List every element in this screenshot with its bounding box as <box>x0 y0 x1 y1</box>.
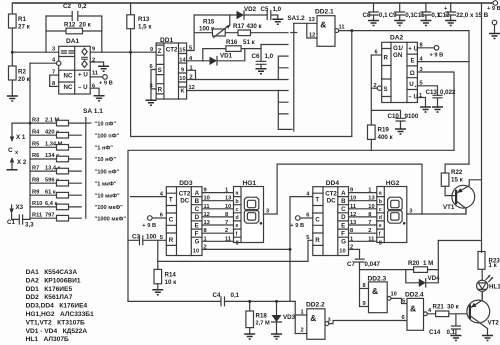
svg-text:10: 10 <box>339 249 345 255</box>
svg-text:8: 8 <box>225 212 228 218</box>
wire: DA2 out long line with left riser to C3/C4 <box>128 150 454 301</box>
ground at DA2 pin 1 <box>420 107 431 112</box>
svg-text:DD3: DD3 <box>179 180 193 187</box>
ground at C13 <box>432 107 443 112</box>
svg-text:DD4: DD4 <box>326 180 340 187</box>
wire: HG2.3 row to VT1 collector <box>422 209 466 214</box>
svg-text:R5: R5 <box>32 142 39 148</box>
svg-text:R11: R11 <box>32 212 42 218</box>
svg-text:R10: R10 <box>32 201 42 207</box>
svg-text:1 М: 1 М <box>423 260 433 267</box>
ground at VD3 <box>271 334 282 339</box>
wire: C7 bottom to R20 row <box>360 269 406 271</box>
svg-text:7: 7 <box>368 220 371 226</box>
svg-text:+ 9 B: + 9 B <box>99 81 113 87</box>
svg-text:0,1: 0,1 <box>231 292 240 299</box>
terminal +9V at DA1 pin 11 <box>103 75 108 80</box>
wire: R2 to ground <box>11 80 13 96</box>
resistor R14 <box>157 240 159 269</box>
svg-text:b: b <box>379 199 382 205</box>
svg-text:g: g <box>379 239 382 245</box>
svg-text:13: 13 <box>225 196 231 202</box>
svg-text:&: & <box>410 304 416 314</box>
svg-text:1: 1 <box>204 236 207 242</box>
svg-text:R: R <box>169 237 174 244</box>
svg-text:HG1,HG2 АЛС333Б1: HG1,HG2 АЛС333Б1 <box>26 311 94 318</box>
DA1 comparator input marks <box>62 51 75 53</box>
svg-text:11: 11 <box>368 236 374 242</box>
svg-text:S: S <box>384 86 388 93</box>
svg-text:9: 9 <box>150 47 153 53</box>
svg-text:10: 10 <box>350 196 356 202</box>
capacitor C10 <box>371 110 405 129</box>
svg-text:R4: R4 <box>32 129 40 135</box>
resistor R19 <box>368 125 376 139</box>
svg-text:51 к: 51 к <box>243 39 256 46</box>
svg-text:13: 13 <box>309 17 315 23</box>
svg-text:G: G <box>341 239 346 246</box>
wire: to X1 <box>12 123 30 133</box>
svg-text:"10 нФ": "10 нФ" <box>95 157 117 163</box>
svg-text:C10: C10 <box>388 113 400 120</box>
wire: R19 bottom to DA2 out line <box>370 139 372 150</box>
svg-text:DA1 К554СА3А: DA1 К554СА3А <box>26 269 78 276</box>
terminal X3 arrow <box>11 205 13 211</box>
svg-text:R21: R21 <box>433 304 445 311</box>
svg-text:DA2 КР1006ВИ1: DA2 КР1006ВИ1 <box>26 277 81 284</box>
svg-text:9: 9 <box>181 68 184 74</box>
svg-text:CT2: CT2 <box>179 191 191 198</box>
svg-text:DD1 К176ИЕ5: DD1 К176ИЕ5 <box>26 286 73 293</box>
svg-text:8: 8 <box>204 228 207 234</box>
svg-text:3: 3 <box>52 47 55 53</box>
svg-text:R15: R15 <box>203 19 215 26</box>
svg-text:D: D <box>195 214 200 221</box>
svg-text:8: 8 <box>350 228 353 234</box>
ground at C6 <box>256 69 267 74</box>
wire: DD4 T riser <box>290 197 313 302</box>
wire: anode rail from HG1.3 to HG2 riser <box>277 164 422 214</box>
svg-text:13: 13 <box>368 196 374 202</box>
svg-text:C2: C2 <box>63 3 71 10</box>
svg-text:11: 11 <box>204 204 210 210</box>
svg-text:+ 9 B: + 9 B <box>142 223 156 229</box>
svg-text:0,047: 0,047 <box>365 261 381 268</box>
svg-text:CT2: CT2 <box>166 47 178 54</box>
wire: DD3 pin2 output row to DD4 T riser <box>202 248 290 250</box>
svg-text:VT1,VT2 КТ3107Б: VT1,VT2 КТ3107Б <box>26 319 85 326</box>
wire: DD4 pin2 to C7 <box>349 249 360 251</box>
resistor R1 <box>9 14 17 28</box>
svg-text:E: E <box>411 58 415 65</box>
svg-text:R7: R7 <box>32 165 39 171</box>
svg-text:F: F <box>341 231 345 238</box>
DA1 comparator diamonds <box>82 48 87 67</box>
svg-text:7: 7 <box>225 220 228 226</box>
svg-text:E: E <box>341 222 345 229</box>
svg-text:e: e <box>236 223 239 229</box>
svg-text:DA2: DA2 <box>390 35 404 42</box>
terminal +9V top right circle <box>493 1 498 6</box>
svg-text:f: f <box>236 231 238 237</box>
svg-text:20 к: 20 к <box>18 76 31 83</box>
svg-text:d: d <box>236 215 239 221</box>
svg-text:5: 5 <box>402 299 405 305</box>
svg-text:Z: Z <box>158 48 162 55</box>
svg-text:61 к: 61 к <box>45 189 56 195</box>
ground at VT2 <box>482 336 493 341</box>
svg-text:R20: R20 <box>408 260 420 267</box>
svg-text:VD1: VD1 <box>220 53 233 60</box>
wire: Z node down to gate line <box>131 52 352 136</box>
ground at R18 <box>244 334 255 339</box>
ground below R2 <box>7 96 18 101</box>
wire: pins 7-8 tie bracket <box>49 75 51 86</box>
ground at C10 <box>395 129 406 134</box>
svg-text:R: R <box>384 55 389 62</box>
svg-text:c: c <box>379 207 382 213</box>
svg-text:X3: X3 <box>16 204 24 211</box>
svg-text:R9: R9 <box>32 189 39 195</box>
svg-text:C: C <box>341 206 346 213</box>
svg-text:CT2: CT2 <box>325 191 337 198</box>
svg-text:DD3,DD4 К176ИЕ4: DD3,DD4 К176ИЕ4 <box>26 303 88 310</box>
svg-text:15 к: 15 к <box>451 177 464 184</box>
svg-text:22,0 x 15 B: 22,0 x 15 B <box>456 12 489 19</box>
svg-text:9: 9 <box>92 47 95 53</box>
svg-text:10: 10 <box>391 292 397 298</box>
svg-text:a: a <box>379 191 382 197</box>
svg-text:C1: C1 <box>7 219 15 226</box>
svg-text:"1000 мкФ": "1000 мкФ" <box>95 216 127 222</box>
svg-text:9: 9 <box>204 188 207 194</box>
terminal +9V at DA2 pin 8 <box>434 46 439 51</box>
resistor R18 <box>249 301 251 311</box>
svg-text:VT2: VT2 <box>488 320 500 327</box>
wire: DD3 T input from gate-line riser <box>131 196 167 198</box>
svg-text:X 2: X 2 <box>17 159 27 166</box>
svg-text:10: 10 <box>193 249 199 255</box>
svg-text:&: & <box>320 20 326 30</box>
svg-text:GN: GN <box>393 52 403 59</box>
svg-text:DD2 К561ЛА7: DD2 К561ЛА7 <box>26 294 73 301</box>
svg-text:C: C <box>8 147 13 154</box>
wire: R1 bottom to node <box>11 28 13 52</box>
svg-text:G1/: G1/ <box>393 45 403 52</box>
svg-text:2: 2 <box>225 228 228 234</box>
svg-text:e: e <box>379 223 382 229</box>
resistor R13 <box>130 3 132 52</box>
svg-text:15: 15 <box>179 48 185 54</box>
terminal X2 arrow <box>10 157 14 163</box>
svg-text:R1: R1 <box>18 16 26 23</box>
svg-text:DD2.1: DD2.1 <box>315 9 334 16</box>
ground at DA1 pin 2 <box>98 66 109 71</box>
svg-text:11: 11 <box>339 25 345 31</box>
wire: ladder left riser X1..C1 <box>29 123 31 219</box>
svg-text:D: D <box>341 214 346 221</box>
svg-text:"100 нФ": "100 нФ" <box>95 169 120 175</box>
node: DD3.2 / riser junction <box>289 248 292 251</box>
svg-text:2: 2 <box>368 228 371 234</box>
svg-text:R8: R8 <box>32 177 39 183</box>
svg-text:&: & <box>372 286 378 296</box>
wire: C2/R12 right riser to pin 9 <box>101 16 103 52</box>
wire: DD2.1-out riser to R22 to VT1 base <box>445 164 469 196</box>
terminal X1 arrow <box>11 133 13 139</box>
svg-text:"1 мкФ": "1 мкФ" <box>95 181 117 187</box>
svg-text:VT1: VT1 <box>443 204 455 211</box>
svg-text:797: 797 <box>45 212 55 218</box>
svg-text:"10 пФ": "10 пФ" <box>95 121 117 127</box>
svg-text:R19: R19 <box>378 127 390 134</box>
ground at C5 <box>272 19 283 24</box>
svg-text:2: 2 <box>301 328 304 334</box>
svg-text:1: 1 <box>350 236 353 242</box>
svg-text:"100 пФ": "100 пФ" <box>95 133 120 139</box>
ground at DD1 pins 6,3 <box>146 100 157 105</box>
svg-text:100: 100 <box>146 234 157 241</box>
svg-text:R12: R12 <box>64 22 76 29</box>
svg-text:11: 11 <box>92 71 98 77</box>
svg-text:+ 9 B: + 9 B <box>487 6 500 12</box>
node: riser/R3/X1 junction <box>29 122 32 125</box>
svg-text:10: 10 <box>179 76 185 82</box>
svg-text:27 к: 27 к <box>18 24 31 31</box>
svg-text:R6: R6 <box>32 153 39 159</box>
svg-text:DA1: DA1 <box>66 38 80 45</box>
svg-text:6,4 к: 6,4 к <box>45 201 57 207</box>
ground at R14 <box>152 290 163 295</box>
svg-text:10: 10 <box>368 204 374 210</box>
svg-text:– U: – U <box>78 84 88 91</box>
capacitor C1 <box>12 214 30 224</box>
decimal point HG2 <box>403 222 406 225</box>
svg-text:1: 1 <box>225 188 228 194</box>
LED HL1 <box>477 280 488 291</box>
svg-text:DD2.2: DD2.2 <box>306 302 325 309</box>
svg-text:b: b <box>236 199 239 205</box>
svg-text:C: C <box>195 206 200 213</box>
svg-text:C: C <box>315 217 320 224</box>
wire: R16 jog to switch contact 2 <box>261 45 288 49</box>
svg-text:G: G <box>195 239 200 246</box>
svg-text:8: 8 <box>368 212 371 218</box>
resistor R23 <box>478 252 485 270</box>
ground at C14 <box>450 336 461 341</box>
svg-text:6: 6 <box>402 315 405 321</box>
svg-text:g: g <box>236 239 239 245</box>
svg-text:20 к: 20 к <box>79 22 92 29</box>
svg-text:d: d <box>379 215 382 221</box>
wire: C4 row <box>128 300 295 302</box>
svg-text:C: C <box>169 217 174 224</box>
svg-text:C6: C6 <box>252 53 260 60</box>
svg-text:30 к: 30 к <box>447 304 460 311</box>
svg-text:430 к: 430 к <box>247 23 263 30</box>
svg-text:R: R <box>158 87 163 94</box>
node: gate line tap <box>351 31 353 137</box>
svg-text:SA 1.1: SA 1.1 <box>83 108 103 115</box>
wire: +9V top rail <box>12 2 493 4</box>
svg-text:0,2: 0,2 <box>78 3 87 10</box>
svg-text:+ 9 B: + 9 B <box>290 223 304 229</box>
svg-text:R22: R22 <box>451 169 463 176</box>
svg-text:9100: 9100 <box>405 113 419 120</box>
svg-text:"100 мкФ": "100 мкФ" <box>95 205 124 211</box>
decimal point HG1 <box>260 222 263 225</box>
svg-text:NC: NC <box>64 73 73 80</box>
svg-text:SA1.2: SA1.2 <box>288 15 306 22</box>
resistor R2 <box>9 66 17 80</box>
svg-text:R18: R18 <box>256 313 268 320</box>
svg-text:A: A <box>341 190 346 197</box>
svg-text:R14: R14 <box>165 272 177 279</box>
svg-text:T: T <box>315 197 319 204</box>
svg-text:*: * <box>415 85 417 90</box>
svg-text:11: 11 <box>350 204 356 210</box>
wire: left rail down from top to R1 <box>11 3 13 14</box>
wire: common reset line DD3.R to DD4.R <box>158 240 313 261</box>
svg-text:2,7 М: 2,7 М <box>256 321 270 327</box>
wire: C2/R12 left riser <box>45 16 47 52</box>
svg-text:0,1: 0,1 <box>379 12 388 19</box>
svg-text:VD2: VD2 <box>244 6 257 13</box>
svg-text:"10 мкФ": "10 мкФ" <box>95 193 121 199</box>
svg-text:9: 9 <box>350 188 353 194</box>
svg-text:NC: NC <box>64 84 73 91</box>
svg-text:X 1: X 1 <box>16 134 26 141</box>
svg-text:F: F <box>195 231 199 238</box>
parts list <box>26 269 94 343</box>
svg-text:10 к: 10 к <box>165 279 178 286</box>
wire: DD2.2 out to DD2.4 pin 6 <box>329 321 407 324</box>
svg-text:1,0: 1,0 <box>273 6 282 13</box>
svg-text:400 к: 400 к <box>378 134 394 141</box>
svg-text:E: E <box>195 222 199 229</box>
svg-text:1: 1 <box>368 188 371 194</box>
wire: terminal stem <box>494 25 496 34</box>
wires DD4 outputs to display <box>349 193 377 242</box>
svg-text:Ω: Ω <box>410 70 415 77</box>
svg-text:DC: DC <box>327 198 336 205</box>
svg-text:R17: R17 <box>233 23 245 30</box>
svg-text:S: S <box>158 67 162 74</box>
svg-text:13: 13 <box>350 220 356 226</box>
HL1 emission arrows <box>486 276 492 282</box>
svg-text:11: 11 <box>225 236 231 242</box>
svg-text:A: A <box>195 190 200 197</box>
wire: node to R2 <box>11 52 13 66</box>
svg-text:12: 12 <box>204 212 210 218</box>
svg-text:R: R <box>315 237 320 244</box>
svg-text:R3: R3 <box>32 117 39 123</box>
svg-text:DC: DC <box>180 198 189 205</box>
svg-text:1,0: 1,0 <box>265 53 274 60</box>
svg-text:R13: R13 <box>138 16 150 23</box>
svg-text:"1 нФ": "1 нФ" <box>95 146 114 152</box>
svg-text:C14: C14 <box>429 329 441 336</box>
switch SA1.1 wiper tick <box>81 122 91 124</box>
svg-text:R2: R2 <box>18 69 26 76</box>
wire: R20/VD4 right node to +9 rail <box>438 240 481 242</box>
switch SA1.2 wiper tick <box>291 32 297 34</box>
node: R13/pin9/Z junction <box>129 51 132 54</box>
terminal circle with ground, right edge <box>492 20 497 25</box>
svg-text:C4: C4 <box>213 292 221 299</box>
svg-text:1,5 к: 1,5 к <box>138 24 152 31</box>
svg-text:c: c <box>236 207 239 213</box>
svg-text:B: B <box>341 198 346 205</box>
svg-text:f: f <box>379 231 381 237</box>
svg-text:10: 10 <box>204 196 210 202</box>
svg-text:+ U: + U <box>78 72 88 79</box>
svg-text:HL1: HL1 <box>489 284 500 291</box>
svg-text:VD1 - VD4 КД522А: VD1 - VD4 КД522А <box>26 328 88 335</box>
svg-text:C7: C7 <box>347 261 355 268</box>
svg-text:DD2.4: DD2.4 <box>405 292 424 299</box>
svg-text:R16: R16 <box>226 39 238 46</box>
wires DD3 outputs to display <box>202 193 234 242</box>
switch SA1.2 contact stubs group 1 <box>278 56 288 79</box>
svg-text:+ 9 B: + 9 B <box>430 53 444 59</box>
ground at right-edge terminal <box>489 34 500 39</box>
svg-text:10: 10 <box>225 204 231 210</box>
svg-text:B: B <box>195 198 200 205</box>
svg-text:13: 13 <box>204 220 210 226</box>
wire: +9 right rail from top to R23 <box>481 3 483 252</box>
svg-text:1 к: 1 к <box>489 262 498 269</box>
svg-text:+ U: + U <box>408 46 418 53</box>
svg-text:VD3: VD3 <box>283 314 296 321</box>
svg-text:a: a <box>236 191 239 197</box>
node: R1/R2/pin3 junction <box>11 51 14 54</box>
wire: DD2.3 out to DD2.4 pin 5 <box>391 298 407 303</box>
wire: DD2.1 output to right riser <box>339 31 469 165</box>
svg-text:14: 14 <box>179 58 186 64</box>
wire: R/S riser down to R19 <box>370 55 372 125</box>
wire: ladder riser from pin 4 node down to X1/R3 row <box>29 63 31 123</box>
svg-text:12: 12 <box>350 212 356 218</box>
svg-text:T: T <box>169 197 173 204</box>
svg-text:&: & <box>310 313 316 323</box>
svg-text:3,3: 3,3 <box>25 222 34 229</box>
ground at DA1 pin 6 <box>94 96 105 101</box>
svg-text:HL1 АЛ307Б: HL1 АЛ307Б <box>26 336 69 343</box>
switch SA1.2 contact stubs group 2 <box>278 91 292 130</box>
